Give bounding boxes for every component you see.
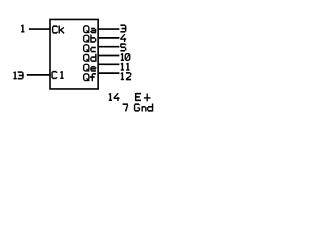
label Cl (clear input): [52, 71, 64, 78]
pin number 11: [121, 63, 130, 70]
label Qc output: [84, 45, 96, 52]
wire pin 1 to Ck input: [29, 28, 51, 30]
wire pin 13 to Cl input: [27, 74, 51, 76]
label Qd output: [84, 54, 96, 62]
ground pin label 7 Gnd: [123, 104, 153, 112]
label Qe output: [84, 64, 96, 71]
wire Qe output to pin 11: [98, 63, 120, 65]
wire Qf output to pin 12: [98, 72, 120, 74]
wire Qd output to pin 10: [98, 54, 120, 56]
wire Qa output to pin 3: [98, 28, 120, 30]
wire Qb output to pin 4: [98, 37, 120, 39]
label Qb output: [84, 35, 96, 43]
wire Qc output to pin 5: [98, 46, 120, 48]
pin number 1: [21, 25, 24, 32]
label Qa output: [84, 26, 96, 33]
pin number 4: [120, 34, 126, 42]
pin number 12: [121, 72, 131, 79]
pin number 10: [121, 53, 130, 60]
IC body U1 (6-stage binary counter): [50, 19, 98, 89]
pin number 13: [13, 72, 23, 79]
pin number 5: [120, 44, 125, 51]
pin number 3: [120, 25, 126, 32]
power pin label 14 E+: [109, 93, 151, 101]
label Ck (clock input): [53, 26, 64, 34]
label Qf output: [84, 74, 96, 81]
